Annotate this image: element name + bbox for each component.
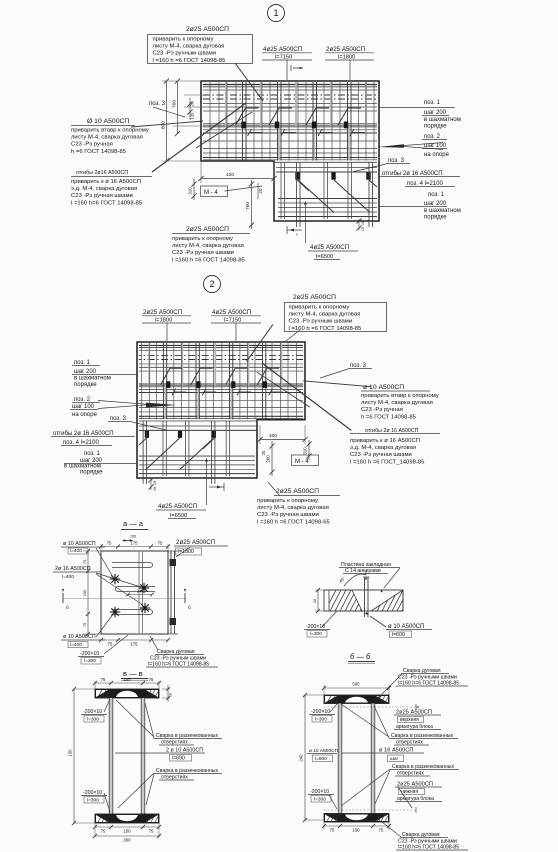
svg-text:20: 20 [190, 101, 195, 106]
section a-a cut arrow left [62, 593, 64, 603]
svg-text:l=300: l=300 [315, 717, 327, 723]
bent bar symbols row 1 detail 2 [257, 368, 267, 385]
section a-a hairpin bar U3 [112, 609, 150, 611]
svg-text:арматура блока: арматура блока [396, 724, 433, 730]
detail 2 bottom leader 2ø25 [268, 482, 280, 496]
svg-text:20: 20 [261, 450, 266, 455]
svg-text:в шахматном: в шахматном [424, 117, 461, 123]
svg-text:2ø25 А500СП: 2ø25 А500СП [143, 309, 182, 316]
section v-v right plate dims 10 6 [162, 688, 170, 690]
svg-text:листу М-4, сварка дуговая: листу М-4, сварка дуговая [361, 400, 433, 406]
svg-text:l=690: l=690 [172, 756, 185, 762]
vertical bars bottom band detail 1 [280, 162, 282, 219]
svg-text:l=400: l=400 [70, 642, 82, 648]
svg-text:Сварка в раззенкованных: Сварка в раззенкованных [156, 768, 218, 774]
svg-text:l=6500: l=6500 [316, 254, 333, 260]
svg-text:2ø25 А500СП: 2ø25 А500СП [326, 46, 365, 53]
svg-text:l=6500: l=6500 [170, 513, 187, 519]
section b-b top dim 500 [324, 687, 389, 689]
svg-text:б: б [188, 605, 191, 610]
svg-text:Сварка в раззенкованных: Сварка в раззенкованных [156, 733, 218, 739]
svg-text:С23 -Рэ ручным швами: С23 -Рэ ручным швами [153, 51, 217, 57]
label leader to grid detail 2 [303, 381, 371, 387]
svg-text:15: 15 [361, 221, 365, 225]
note box leader detail 2 [247, 325, 273, 362]
svg-text:отгибы 2ø 16 А500СП: отгибы 2ø 16 А500СП [365, 428, 419, 434]
detail 1 dim extension lines left [162, 80, 201, 82]
detail 1 leader 4ø25 [286, 60, 288, 81]
svg-text:приварить к опорному: приварить к опорному [257, 498, 318, 504]
svg-text:э.д. М-4, сварка дуговая: э.д. М-4, сварка дуговая [350, 445, 416, 451]
section v-v bottom plate [95, 814, 159, 823]
svg-text:2ø25 А500СП: 2ø25 А500СП [276, 488, 319, 495]
mesh horizontals upper group detail 2 [139, 347, 303, 349]
svg-text:75: 75 [101, 677, 106, 682]
svg-text:-200×10: -200×10 [80, 651, 99, 657]
section a-a left dim line [87, 551, 89, 634]
mesh horizontals bottom band detail 2 [139, 455, 255, 457]
detail 2 dim 260 [271, 441, 273, 476]
svg-text:20: 20 [258, 188, 263, 194]
detail 1 weld note box top-left [148, 35, 253, 64]
support thick line detail 2 [139, 384, 303, 387]
section v-v bottom dim row1 [95, 826, 159, 828]
section a-a weld star 2 [139, 587, 149, 589]
top edge inner line detail 2 [139, 344, 303, 346]
svg-text:С23 -Рэ ручная швами: С23 -Рэ ручная швами [257, 512, 319, 518]
svg-text:Сварка дуговая: Сварка дуговая [402, 832, 440, 838]
svg-text:l =160 h =6 ГОСТ 14098-85: l =160 h =6 ГОСТ 14098-85 [153, 58, 226, 64]
svg-text:М - 4: М - 4 [295, 459, 309, 465]
svg-text:l=400: l=400 [62, 574, 74, 580]
gray cross bars vertical detail 1 [225, 82, 227, 126]
detail 2 leader 4ø25 bottom [206, 461, 208, 505]
step interior line detail 1 [274, 161, 377, 163]
svg-text:ø 16 А500СП: ø 16 А500СП [379, 748, 413, 754]
detail 2 small dim below plan [209, 486, 224, 488]
svg-text:отверстиях: отверстиях [397, 771, 424, 777]
mesh horizontals upper group detail 1 [203, 86, 377, 88]
svg-text:l=300: l=300 [314, 797, 326, 803]
svg-text:приварить к ø 16 А500СП: приварить к ø 16 А500СП [350, 438, 420, 444]
mesh horizontals middle detail 2 [139, 388, 303, 390]
svg-text:h =6 ГОСТ 14098-85: h =6 ГОСТ 14098-85 [361, 414, 417, 420]
svg-text:на опоре: на опоре [424, 152, 450, 158]
svg-text:760: 760 [245, 202, 251, 210]
svg-text:листу М-4, сварка дуговая: листу М-4, сварка дуговая [257, 505, 329, 511]
section b-b left dim 240 [304, 695, 306, 820]
detail 2 title circle [204, 276, 221, 293]
svg-text:150: 150 [82, 589, 87, 596]
section b-b upper rebar dashed line [324, 706, 416, 708]
weld detail plate outline [324, 590, 403, 611]
detail 2 weld note box top-right [285, 303, 387, 332]
svg-text:Сварка дуговая: Сварка дуговая [403, 668, 441, 674]
weld marks row 2 detail 1 [295, 173, 299, 180]
svg-text:4ø25 А500СП: 4ø25 А500СП [310, 244, 349, 251]
section a-a hairpin bar U2 [118, 586, 155, 588]
svg-text:2ø25 А500СП: 2ø25 А500СП [186, 26, 229, 33]
section a-a bottom dim line [101, 639, 168, 641]
svg-text:приварить втавр к опорному: приварить втавр к опорному [361, 393, 439, 399]
svg-text:2ø25 А500СП: 2ø25 А500СП [186, 226, 229, 233]
svg-text:листу М-4, сварка дуговая: листу М-4, сварка дуговая [289, 312, 361, 318]
weld marks row 2 detail 2 [212, 431, 216, 438]
svg-text:э.д. М-4, сварка дуговая: э.д. М-4, сварка дуговая [71, 186, 137, 192]
svg-text:120: 120 [190, 112, 195, 120]
svg-text:l=160 h=6 ГОСТ 14098-85: l=160 h=6 ГОСТ 14098-85 [398, 681, 459, 687]
svg-text:в шахматном: в шахматном [424, 208, 461, 214]
svg-text:75: 75 [108, 642, 113, 647]
svg-text:С23 -Рэ ручным швами: С23 -Рэ ручным швами [289, 319, 353, 325]
svg-text:а — а: а — а [123, 519, 144, 528]
section b-b web bars [338, 704, 341, 814]
svg-text:75: 75 [158, 541, 163, 546]
svg-text:260: 260 [266, 455, 271, 463]
svg-text:10: 10 [169, 693, 173, 697]
vertical bars bottom band detail 2 [229, 421, 231, 476]
svg-text:75: 75 [379, 828, 384, 833]
bent bar diagonals row 2 detail 1 [298, 180, 334, 213]
bent bar row 2 line detail 1 [276, 171, 377, 173]
step interior line detail 2 [139, 420, 257, 422]
svg-text:шаг 200: шаг 200 [424, 201, 447, 207]
section a-a cut line b-b [63, 598, 186, 600]
svg-text:Сварка в раззенкованных: Сварка в раззенкованных [391, 733, 453, 739]
svg-text:поз. 3: поз. 3 [110, 416, 127, 422]
svg-text:l =160 h =6 ГОСТ 14098-85: l =160 h =6 ГОСТ 14098-85 [172, 257, 245, 263]
svg-text:75: 75 [330, 828, 335, 833]
svg-text:приварить к ø 16 А500СП: приварить к ø 16 А500СП [71, 179, 141, 185]
svg-text:l =160 h=6 ГОСТ 14098-85: l =160 h=6 ГОСТ 14098-85 [71, 200, 143, 206]
svg-text:-200×10: -200×10 [83, 709, 102, 715]
svg-text:поз. 1: поз. 1 [424, 100, 441, 106]
svg-text:420: 420 [226, 172, 234, 178]
bent bar diagonals row 2 detail 2 [180, 438, 214, 470]
svg-text:шаг 100: шаг 100 [72, 404, 95, 410]
svg-text:Сварка дуговая: Сварка дуговая [157, 649, 195, 655]
svg-text:l=300: l=300 [310, 631, 322, 637]
svg-text:4ø25 А500СП: 4ø25 А500СП [158, 503, 197, 510]
detail 1 dims 15 15 below plan [358, 219, 360, 230]
detail 1 small arrow mark [293, 67, 303, 69]
label leader to grid detail 1 [131, 121, 203, 127]
section a-a top dim line [101, 546, 168, 548]
gray cross bars vertical detail 2 [280, 343, 282, 386]
detail 1 leader 4ø25 bottom [304, 204, 306, 243]
detail 1 title circle [268, 5, 285, 22]
svg-text:l =160 h =6 ГОСТ 14098-85: l =160 h =6 ГОСТ 14098-85 [289, 326, 362, 332]
bent bar row 2 line detail 2 [139, 429, 257, 431]
svg-text:на опоре: на опоре [72, 412, 98, 418]
svg-text:2 ø 10 А500СП: 2 ø 10 А500СП [166, 748, 203, 754]
svg-text:800: 800 [161, 121, 167, 129]
section a-a plate outline [101, 551, 168, 634]
detail 1 dim 760 vertical line [177, 81, 179, 134]
svg-text:310: 310 [188, 187, 193, 195]
bent bar symbols row 1 detail 1 [236, 108, 246, 125]
svg-text:поз. 3: поз. 3 [388, 158, 405, 164]
svg-text:ø 10 А500СП: ø 10 А500СП [63, 634, 96, 640]
long diagonal leaders detail 1 [152, 103, 246, 172]
svg-text:310: 310 [303, 447, 308, 455]
section a-a weld star 4 [110, 611, 120, 613]
weld detail bevel angle arc [344, 574, 366, 586]
detail 2 note box leader [286, 330, 300, 341]
svg-text:100: 100 [130, 535, 136, 539]
section b-b top plate [324, 695, 389, 704]
svg-text:поз. 4 l=2100: поз. 4 l=2100 [407, 181, 443, 187]
svg-text:150: 150 [123, 677, 131, 682]
svg-text:нижняя: нижняя [401, 789, 418, 795]
svg-text:150: 150 [68, 749, 73, 757]
section v-v top plate [95, 689, 159, 698]
detail 1 zigzag arrow poz2 [400, 143, 443, 146]
svg-text:порядке: порядке [80, 470, 103, 476]
svg-text:l=300: l=300 [87, 717, 99, 723]
section v-v left dim 150 [73, 689, 75, 823]
svg-text:-200×10: -200×10 [310, 789, 329, 795]
detail 2 dim 400 [259, 425, 261, 444]
svg-text:75: 75 [149, 829, 154, 834]
svg-text:порядке: порядке [424, 124, 447, 130]
svg-text:h =6 ГОСТ 14098-85: h =6 ГОСТ 14098-85 [71, 149, 127, 155]
svg-text:отверстиях: отверстиях [396, 740, 423, 746]
section v-v top dim [95, 682, 159, 684]
support thick line detail 1 [203, 124, 377, 127]
svg-text:шаг 200: шаг 200 [424, 110, 447, 116]
section a-a weld star 1 [110, 578, 120, 580]
svg-text:листу М-4, сварка дуговая: листу М-4, сварка дуговая [172, 243, 244, 249]
detail 2 zigzag arrow poz2 left [98, 401, 148, 405]
svg-text:l=400: l=400 [70, 548, 82, 554]
long diagonal leaders detail 2 [263, 363, 352, 430]
svg-text:приварить к опорному: приварить к опорному [172, 236, 233, 242]
svg-text:2: 2 [209, 279, 214, 289]
svg-text:поз. 2: поз. 2 [74, 397, 91, 403]
vertical bars top band detail 1 [242, 82, 244, 161]
svg-text:2ø 16 А500СП: 2ø 16 А500СП [55, 566, 91, 572]
section a-a top small dim 100 [124, 540, 133, 542]
svg-text:поз. 3: поз. 3 [350, 363, 367, 369]
weld marks row 1 detail 1 [241, 122, 245, 129]
svg-text:-200×10: -200×10 [311, 709, 330, 715]
svg-text:75: 75 [107, 541, 112, 546]
svg-text:отверстиях: отверстиях [161, 775, 188, 781]
svg-text:l=1800: l=1800 [155, 318, 172, 324]
svg-text:С23 -Рэ ручная швами: С23 -Рэ ручная швами [172, 250, 234, 256]
svg-text:75: 75 [101, 829, 106, 834]
svg-text:б — б: б — б [350, 652, 370, 661]
svg-text:ø 10 А500СП: ø 10 А500СП [363, 384, 404, 391]
svg-text:ø 10 А500СП: ø 10 А500СП [388, 624, 424, 630]
svg-text:1: 1 [296, 233, 298, 237]
detail 1 small dims 20 120 [189, 98, 191, 120]
section b-b bottom plate [324, 814, 389, 823]
svg-text:верхняя: верхняя [400, 717, 419, 723]
detail 1 dim 760 lower [251, 180, 253, 229]
section v-v web bars [109, 698, 112, 814]
section b-b lower rebar dashed line [324, 809, 416, 811]
svg-text:2ø25 А500СП: 2ø25 А500СП [176, 539, 215, 546]
detail 1 dim 310 [193, 179, 195, 201]
svg-text:140: 140 [137, 590, 143, 594]
svg-text:l=160 h=6 ГОСТ 14098-85: l=160 h=6 ГОСТ 14098-85 [148, 662, 209, 668]
svg-text:приварить к опорному: приварить к опорному [153, 37, 214, 43]
svg-text:арматура блока: арматура блока [397, 796, 434, 802]
svg-text:l=7150: l=7150 [275, 55, 292, 61]
svg-text:75: 75 [82, 560, 87, 564]
svg-text:поз. 1: поз. 1 [84, 451, 101, 457]
slab outline detail 2 [137, 342, 305, 478]
weld marks row 1 detail 2 [263, 381, 267, 388]
svg-text:l=1800: l=1800 [338, 55, 355, 61]
svg-text:С23 -Рэ ручная: С23 -Рэ ручная [71, 142, 113, 148]
svg-text:шаг 200: шаг 200 [74, 369, 97, 375]
svg-text:Ø 10 А500СП: Ø 10 А500СП [87, 118, 129, 125]
svg-text:2ø25 А500СП: 2ø25 А500СП [293, 294, 336, 301]
svg-text:поз. 1: поз. 1 [74, 360, 91, 366]
svg-text:ø 10 А500СП: ø 10 А500СП [309, 748, 339, 754]
detail 1 dim 420 [200, 161, 202, 183]
mesh horizontals bottom band detail 1 [278, 198, 377, 200]
section a-a weld star 3 [140, 607, 150, 609]
svg-text:15: 15 [153, 481, 157, 485]
detail 1 small dim below plan [287, 229, 302, 231]
svg-text:С23 -Рэ ручная швами: С23 -Рэ ручная швами [350, 452, 412, 458]
svg-text:l=300: l=300 [87, 798, 99, 804]
svg-text:С23 -Рэ ручная швами: С23 -Рэ ручная швами [71, 193, 133, 199]
detail 1 leader 2ø25 right [349, 60, 351, 81]
svg-text:175: 175 [130, 541, 138, 546]
slab outline detail 1 [201, 81, 379, 221]
svg-text:500: 500 [352, 682, 360, 687]
svg-text:45°: 45° [338, 576, 346, 584]
svg-text:l =160 h =6 ГОСТ_14098-85: l =160 h =6 ГОСТ_14098-85 [350, 459, 425, 465]
svg-text:15: 15 [361, 227, 365, 231]
svg-text:листу М-4, сварка дуговая: листу М-4, сварка дуговая [71, 135, 143, 141]
svg-text:2ø25 А500СП: 2ø25 А500СП [396, 710, 432, 716]
svg-text:400: 400 [269, 433, 277, 439]
svg-text:порядке: порядке [424, 215, 447, 221]
top edge inner line detail 1 [203, 84, 377, 86]
svg-text:75: 75 [149, 677, 154, 682]
svg-text:ø 10 А500СП: ø 10 А500СП [63, 541, 96, 547]
svg-text:l=600: l=600 [392, 632, 405, 638]
svg-text:175: 175 [130, 642, 138, 647]
svg-text:4ø25 А500СП: 4ø25 А500СП [212, 309, 251, 316]
section a-a cut arrow right [184, 593, 186, 603]
svg-text:приварить втавр к опорному: приварить втавр к опорному [71, 128, 149, 134]
section a-a 2ø25 bars right [170, 551, 172, 634]
svg-text:l =160 h =6 ГОСТ 14098-65: l =160 h =6 ГОСТ 14098-65 [257, 519, 330, 525]
weld detail anchor bar [364, 577, 366, 617]
svg-text:Сварка в раззенкованных: Сварка в раззенкованных [392, 764, 454, 770]
svg-text:поз. 3: поз. 3 [149, 101, 166, 107]
svg-text:б: б [66, 605, 69, 610]
svg-text:150: 150 [352, 828, 360, 833]
svg-text:-200×10: -200×10 [83, 790, 102, 796]
detail 2 dims 15 15 below plan [150, 478, 152, 490]
weld detail dim 10 left [317, 590, 319, 611]
svg-text:в шахматном: в шахматном [74, 376, 111, 382]
svg-text:l=7150: l=7150 [224, 318, 241, 324]
vertical bars top band detail 2 [265, 343, 267, 419]
section b-b bottom dim [324, 825, 389, 827]
svg-text:отверстиях: отверстиях [161, 740, 188, 746]
svg-text:приварить к опорному: приварить к опорному [289, 305, 350, 311]
section v-v bottom dim total 300 [95, 835, 159, 837]
note box leader detail 1 [235, 63, 263, 101]
detail 1 dim 800 vertical line [166, 81, 168, 161]
svg-text:С 14 анкерами: С 14 анкерами [345, 568, 381, 574]
svg-text:l=160 h=6 ГОСТ 14098-85: l=160 h=6 ГОСТ 14098-85 [398, 845, 459, 851]
svg-text:отгибы 2ø 16 А500СП: отгибы 2ø 16 А500СП [382, 171, 443, 177]
section a-a internal dim 140 [128, 594, 152, 596]
section a-a vertical bar pair [138, 552, 140, 633]
svg-text:поз. 2: поз. 2 [424, 134, 441, 140]
svg-text:l=300: l=300 [84, 658, 96, 664]
svg-text:поз. 4 l=2100: поз. 4 l=2100 [63, 440, 99, 446]
detail 2 dim 310 right [308, 440, 310, 460]
section a-a hairpin bar U1 [112, 562, 150, 564]
svg-text:листу М-4, сварка дуговая: листу М-4, сварка дуговая [153, 44, 225, 50]
svg-text:240: 240 [299, 754, 304, 762]
svg-text:760: 760 [172, 100, 178, 108]
svg-text:отгибы 2ø 16 А500СП: отгибы 2ø 16 А500СП [53, 431, 114, 437]
svg-text:10: 10 [312, 598, 317, 603]
svg-text:4ø25 А500СП: 4ø25 А500СП [263, 46, 302, 53]
svg-text:1: 1 [273, 8, 278, 18]
svg-text:отгибы 2ø16 А500СП: отгибы 2ø16 А500СП [76, 170, 128, 176]
svg-text:15: 15 [153, 487, 157, 491]
svg-text:С23 -Рэ ручная: С23 -Рэ ручная [361, 407, 403, 413]
weld detail bar top arrow [365, 570, 367, 575]
svg-text:поз. 1: поз. 1 [428, 192, 445, 198]
svg-text:300: 300 [123, 838, 131, 843]
svg-text:l=600: l=600 [315, 756, 327, 762]
svg-text:75: 75 [82, 623, 87, 627]
svg-text:150: 150 [123, 829, 131, 834]
mesh horizontals middle detail 1 [203, 129, 377, 131]
svg-text:2ø25 А500СП: 2ø25 А500СП [397, 782, 433, 788]
svg-text:М - 4: М - 4 [204, 190, 218, 196]
svg-text:порядке: порядке [74, 382, 97, 388]
